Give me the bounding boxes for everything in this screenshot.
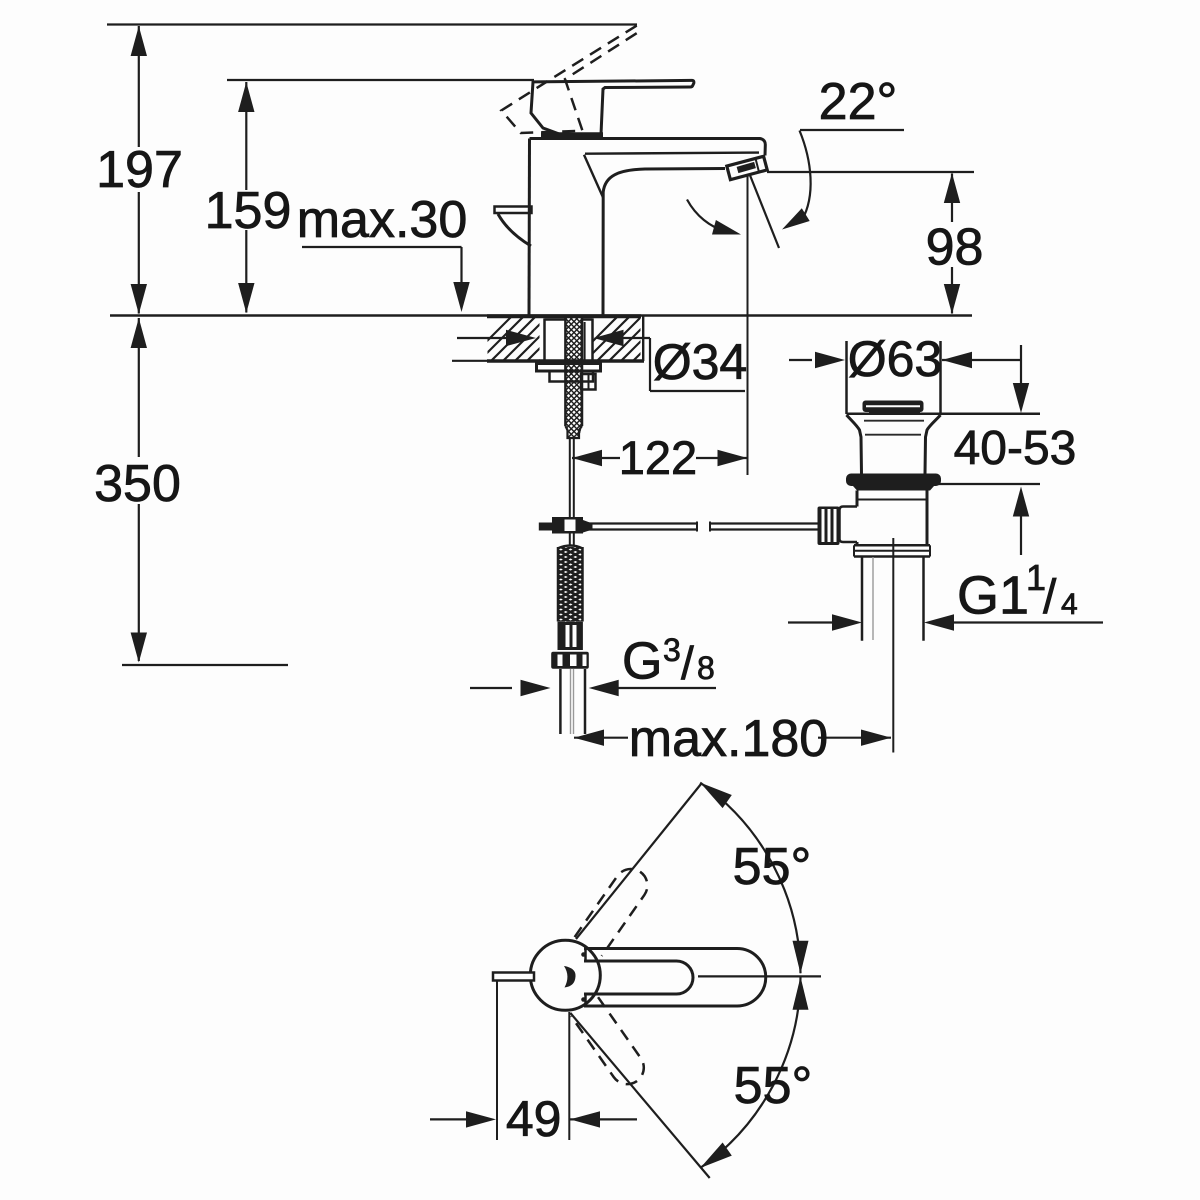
svg-text:55°: 55° <box>733 838 812 896</box>
svg-text:Ø63: Ø63 <box>848 331 943 387</box>
svg-text:/: / <box>1043 571 1057 624</box>
svg-text:Ø34: Ø34 <box>653 334 748 390</box>
svg-text:4: 4 <box>1061 588 1078 621</box>
svg-text:/: / <box>681 637 694 689</box>
svg-text:98: 98 <box>926 219 984 277</box>
svg-text:max.30: max.30 <box>297 191 468 249</box>
svg-text:3: 3 <box>663 632 681 668</box>
svg-text:40-53: 40-53 <box>954 422 1077 475</box>
svg-text:350: 350 <box>94 455 181 513</box>
svg-text:8: 8 <box>697 650 715 686</box>
svg-text:22°: 22° <box>819 73 898 131</box>
svg-text:G: G <box>622 633 662 691</box>
svg-text:49: 49 <box>506 1091 562 1147</box>
svg-text:max.180: max.180 <box>629 710 828 768</box>
svg-text:159: 159 <box>205 182 292 240</box>
svg-text:122: 122 <box>619 431 697 484</box>
svg-text:197: 197 <box>96 141 183 199</box>
svg-text:55°: 55° <box>734 1057 813 1115</box>
svg-text:G1: G1 <box>957 566 1029 626</box>
